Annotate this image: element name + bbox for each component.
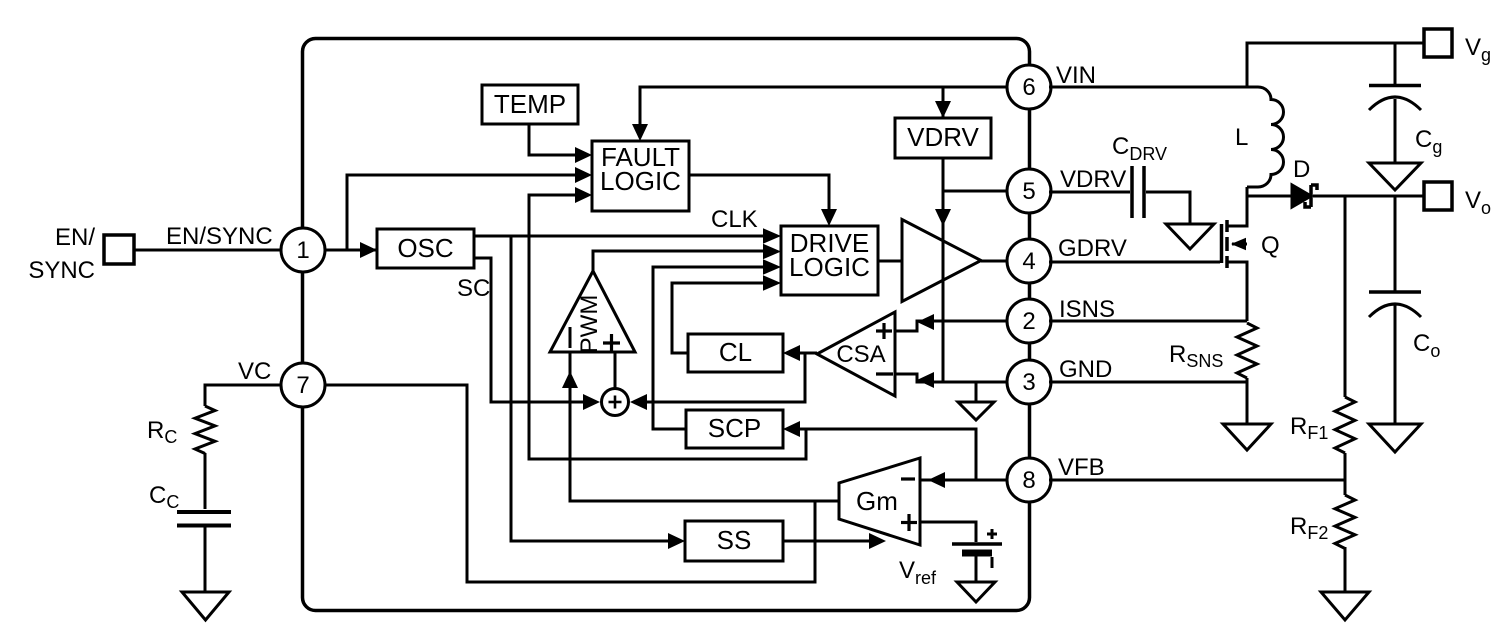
svg-text:CLK: CLK (711, 206, 758, 233)
arrowhead CSA out into CL (783, 345, 800, 361)
arrowhead CSA out into summer (630, 394, 647, 410)
gate driver buffer (902, 220, 981, 302)
arrowhead into VDRV top (935, 101, 951, 118)
wire riser to Vg rail (1247, 43, 1424, 87)
CSA plus sign (882, 323, 885, 339)
block SCP (686, 410, 783, 448)
wire CL output to DRIVE LOGIC (672, 283, 767, 353)
svg-text:OSC: OSC (397, 233, 453, 263)
wire SS output toward Gm (783, 540, 870, 543)
wire OSC SC output down to summer (474, 258, 587, 402)
wire pin 8 VFB to divider (1049, 479, 1345, 482)
wire pin 4 GDRV to gate (1049, 261, 1220, 264)
pin 8 (1007, 458, 1051, 502)
block OSC (377, 229, 474, 268)
svg-text:VDRV: VDRV (1060, 166, 1126, 193)
arrowhead into DRIVE LOGIC top (821, 209, 837, 226)
wire diode to Vo (1313, 195, 1424, 198)
resistor RF2 (1335, 495, 1355, 549)
block DRIVE LOGIC (781, 226, 878, 295)
svg-text:Q: Q (1261, 232, 1280, 259)
pin 2 (1007, 299, 1051, 343)
svg-text:VDRV: VDRV (907, 122, 979, 152)
block VDRV regulator (895, 118, 991, 158)
wire Vref to ground (975, 556, 978, 582)
inductor L (1247, 87, 1284, 187)
Gm minus sign (901, 477, 915, 480)
battery Vref (952, 542, 1002, 546)
svg-text:CC: CC (149, 482, 179, 512)
wire pin 6 to inductor node (1049, 86, 1247, 89)
svg-text:Cg: Cg (1415, 126, 1442, 157)
svg-text:RF2: RF2 (1290, 513, 1328, 543)
pin 6 (1007, 65, 1051, 109)
svg-text:SCP: SCP (708, 413, 761, 443)
pin 5 (1007, 169, 1051, 213)
wire Gm plus input to Vref (920, 522, 976, 542)
wire CC to ground (204, 527, 207, 592)
wire CSA plus input from pin 2 (895, 321, 1008, 331)
capacitor CC (177, 510, 231, 514)
arrowhead into Gm minus (928, 472, 945, 488)
svg-text:TEMP: TEMP (494, 89, 566, 119)
arrowhead SS output (869, 533, 886, 549)
amplifier CSA (817, 312, 895, 396)
svg-text:6: 6 (1022, 74, 1035, 101)
wire RF2 to ground (1344, 547, 1347, 592)
arrowhead SC into summer (583, 394, 600, 410)
wire ground stub near pin 3 (975, 382, 978, 402)
svg-text:SC: SC (457, 275, 490, 302)
svg-text:LOGIC: LOGIC (789, 252, 870, 282)
wire RF1 to VFB node (1344, 453, 1347, 495)
svg-text:3: 3 (1022, 369, 1035, 396)
svg-text:PWM: PWM (576, 295, 603, 354)
wire pin1 to OSC with branch riser to FAULT LOGIC input 2 (323, 249, 377, 252)
svg-text:1: 1 (296, 237, 309, 264)
capacitor CDRV (1130, 166, 1134, 218)
arrowhead into FAULT LOGIC top (632, 124, 648, 141)
svg-text:VIN: VIN (1056, 62, 1096, 89)
svg-text:Vg: Vg (1465, 34, 1491, 65)
resistor RC (195, 406, 215, 454)
svg-text:RF1: RF1 (1290, 413, 1328, 443)
wire Co branch (1394, 196, 1397, 292)
wire GND pin 3 to CSA minus input (895, 374, 1008, 382)
transistor Q body arrow (1232, 243, 1247, 246)
resistor RSNS (1237, 323, 1257, 378)
wire VIN rail (pin 6 to FAULT LOGIC top) (640, 87, 1008, 128)
wire VFB riser to FAULT LOGIC input 3 (529, 195, 806, 459)
Gm plus sign (907, 514, 910, 531)
svg-text:2: 2 (1022, 308, 1035, 335)
svg-text:CL: CL (719, 337, 752, 367)
wire Co to ground (1394, 305, 1397, 424)
terminal Vg (1424, 29, 1452, 57)
svg-text:GDRV: GDRV (1058, 235, 1127, 262)
summer plus sign (614, 396, 617, 409)
svg-text:L: L (1235, 124, 1248, 151)
svg-text:EN/SYNC: EN/SYNC (166, 223, 273, 250)
wire switch node to diode (1247, 195, 1292, 198)
arrowhead into OSC (360, 242, 377, 258)
wire CLK branch riser down to SS input (511, 237, 671, 541)
IC boundary (303, 39, 1030, 611)
block CL (688, 334, 783, 372)
svg-text:5: 5 (1022, 178, 1035, 205)
transistor Q channel segments (1225, 220, 1229, 268)
svg-text:GND: GND (1059, 356, 1112, 383)
wire TEMP to FAULT LOGIC input 1 (529, 124, 578, 155)
arrowhead CSA minus input (917, 372, 934, 388)
ground symbol below Cg (1369, 163, 1421, 190)
pin 7 (281, 363, 325, 407)
wire PWM output to DRIVE LOGIC (593, 251, 767, 271)
svg-text:CDRV: CDRV (1112, 133, 1167, 164)
wire VFB branch riser to SCP input (797, 429, 976, 480)
PWM minus input tick (569, 327, 572, 348)
wire pin 5 to CDRV (1049, 191, 1130, 194)
arrowhead into SS (668, 533, 685, 549)
transistor Q drain stub (1227, 196, 1247, 226)
svg-text:EN/: EN/ (55, 224, 95, 251)
wire SCP output to DRIVE LOGIC (653, 267, 767, 429)
wire FAULT LOGIC output to DRIVE LOGIC top (689, 175, 829, 213)
terminal Vo (1424, 182, 1452, 210)
svg-text:Vref: Vref (899, 557, 937, 588)
wire inductor to switch node (1246, 187, 1249, 196)
wire output node down to RF1 (1344, 196, 1347, 397)
transistor Q gate bar (1220, 224, 1224, 263)
wire CSA output to CL input (797, 352, 817, 355)
wire VFB pin 8 to Gm minus input (920, 479, 1008, 482)
svg-text:D: D (1293, 156, 1310, 183)
ground symbol near pin 3 (958, 402, 994, 420)
resistor RF1 (1335, 397, 1355, 453)
pin 4 (1007, 239, 1051, 283)
terminal EN/SYNC (104, 235, 134, 264)
arrowheads into DRIVE LOGIC left (763, 228, 781, 244)
wire VDRV drop from VIN rail (942, 87, 945, 118)
svg-text:LOGIC: LOGIC (600, 166, 681, 196)
wire Cg branch from Vg rail (1394, 43, 1397, 84)
svg-text:ISNS: ISNS (1059, 296, 1115, 323)
error amplifier Gm (839, 458, 920, 545)
ground symbol below RSNS (1223, 424, 1271, 450)
comparator PWM (550, 271, 635, 352)
block TEMP (482, 85, 578, 124)
wire VDRV rail down through driver to GND wire (942, 158, 945, 382)
svg-text:8: 8 (1022, 467, 1035, 494)
wire DRIVE LOGIC output to driver (878, 260, 902, 263)
diode D (schottky) (1292, 185, 1311, 207)
ground symbol below RF2 (1321, 592, 1369, 620)
block FAULT LOGIC (592, 141, 689, 211)
wire Cg to ground (1394, 99, 1397, 163)
arrowheads into FAULT LOGIC left (575, 147, 592, 163)
svg-text:7: 7 (296, 372, 309, 399)
wire RC to CC (204, 453, 207, 509)
wire driver output to pin 4 (981, 260, 1008, 263)
wire CSA output branch to summer (643, 353, 805, 402)
capacitor Co (1369, 290, 1421, 294)
svg-text:VFB: VFB (1058, 454, 1105, 481)
wire Gm output to PWM input and VC pin 7 (570, 352, 839, 501)
wire EN/SYNC input to pin 1 (134, 249, 281, 252)
pin 1 (281, 228, 325, 272)
pin 3 (1007, 360, 1051, 404)
summer node (602, 389, 629, 416)
ground symbol below Vref (957, 582, 995, 602)
wire pin 2 ISNS to RSNS (1049, 320, 1247, 323)
arrowhead Gm output up into PWM (562, 371, 578, 388)
svg-text:4: 4 (1022, 248, 1035, 275)
svg-text:Vo: Vo (1465, 187, 1491, 218)
svg-text:SYNC: SYNC (28, 257, 95, 284)
svg-text:VC: VC (238, 358, 271, 385)
wire summer to PWM plus input (614, 352, 617, 389)
block SS (685, 521, 783, 561)
PWM plus input sign (610, 334, 613, 352)
svg-text:RC: RC (147, 417, 177, 447)
svg-text:Co: Co (1413, 330, 1440, 361)
wire pin 7 to RC (205, 385, 281, 406)
CSA minus sign (876, 372, 893, 375)
svg-text:CSA: CSA (836, 341, 885, 368)
arrowhead CSA plus input (917, 314, 934, 330)
svg-text:Gm: Gm (856, 486, 898, 516)
ground symbol below CDRV (1166, 224, 1214, 249)
wire pin 3 GND to RSNS bottom (1049, 381, 1247, 384)
wire RSNS to ground (1246, 378, 1249, 424)
arrowhead into SCP right (783, 421, 800, 437)
wire OSC CLK output to DRIVE LOGIC (474, 235, 767, 238)
transistor Q source stub (1227, 262, 1247, 321)
wire pin 5 stub to VDRV rail (943, 190, 1008, 193)
svg-text:RSNS: RSNS (1169, 341, 1223, 371)
ground symbol below CC (182, 592, 229, 620)
ground symbol below Co (1369, 424, 1421, 452)
svg-text:SS: SS (717, 525, 752, 555)
capacitor Cg (1369, 84, 1421, 88)
arrowhead VDRV rail into driver (935, 209, 951, 226)
wire CDRV to ground (1146, 192, 1190, 224)
